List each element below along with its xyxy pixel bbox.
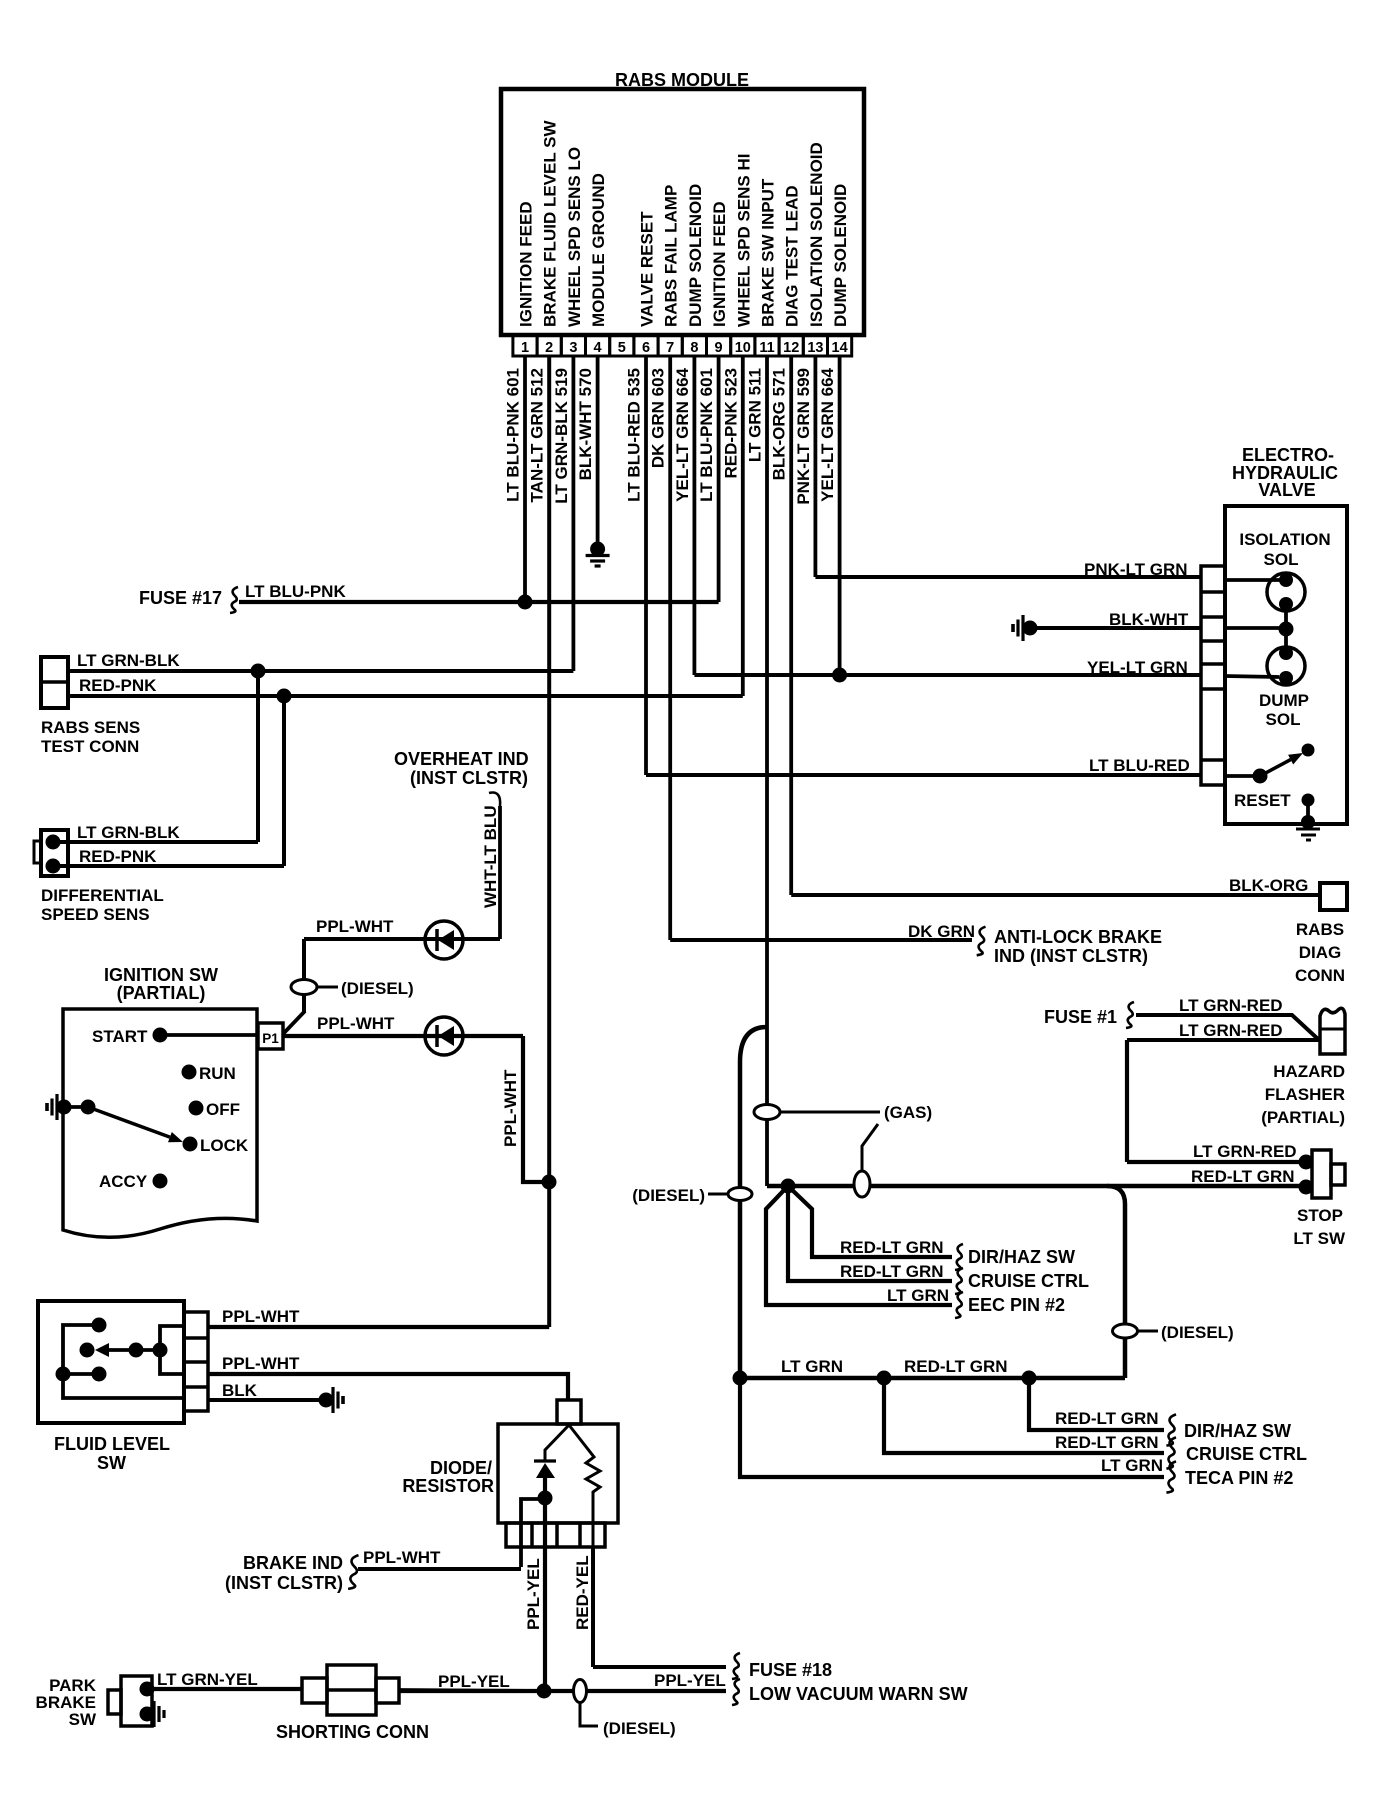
svg-text:CRUISE CTRL: CRUISE CTRL — [968, 1271, 1089, 1291]
svg-text:RED-LT GRN: RED-LT GRN — [840, 1262, 944, 1281]
svg-text:PPL-WHT: PPL-WHT — [222, 1354, 300, 1373]
svg-text:P1: P1 — [262, 1031, 279, 1046]
svg-text:WHEEL SPD SENS HI: WHEEL SPD SENS HI — [734, 154, 753, 328]
svg-text:LT BLU-RED: LT BLU-RED — [1089, 756, 1190, 775]
svg-text:CRUISE CTRL: CRUISE CTRL — [1186, 1444, 1307, 1464]
svg-text:PPL-YEL: PPL-YEL — [438, 1672, 510, 1691]
svg-text:LT GRN-BLK: LT GRN-BLK — [77, 651, 180, 670]
svg-text:PPL-YEL: PPL-YEL — [654, 1671, 726, 1690]
svg-text:RED-PNK 523: RED-PNK 523 — [721, 368, 740, 479]
svg-text:BLK-WHT 570: BLK-WHT 570 — [576, 368, 595, 480]
svg-text:10: 10 — [735, 340, 751, 356]
svg-text:FLUID LEVEL: FLUID LEVEL — [54, 1434, 170, 1454]
svg-text:FLASHER: FLASHER — [1265, 1085, 1345, 1104]
svg-text:STOP: STOP — [1297, 1206, 1343, 1225]
svg-text:LT GRN-RED: LT GRN-RED — [1193, 1142, 1297, 1161]
svg-text:YEL-LT GRN 664: YEL-LT GRN 664 — [673, 367, 692, 501]
svg-text:RED-LT GRN: RED-LT GRN — [1055, 1409, 1159, 1428]
svg-text:6: 6 — [642, 340, 650, 356]
svg-text:(INST CLSTR): (INST CLSTR) — [410, 768, 528, 788]
svg-text:3: 3 — [569, 340, 577, 356]
svg-text:DIAG: DIAG — [1299, 943, 1342, 962]
svg-text:BRAKE SW INPUT: BRAKE SW INPUT — [759, 178, 778, 327]
svg-text:LOCK: LOCK — [200, 1136, 249, 1155]
svg-text:DIODE/: DIODE/ — [430, 1458, 492, 1478]
svg-text:8: 8 — [690, 340, 698, 356]
svg-text:FUSE #1: FUSE #1 — [1044, 1007, 1117, 1027]
svg-text:OFF: OFF — [206, 1100, 240, 1119]
svg-text:RED-LT GRN: RED-LT GRN — [904, 1357, 1008, 1376]
svg-text:ANTI-LOCK BRAKE: ANTI-LOCK BRAKE — [994, 927, 1162, 947]
svg-text:LT GRN 511: LT GRN 511 — [746, 368, 765, 462]
svg-text:ELECTRO-: ELECTRO- — [1242, 445, 1334, 465]
svg-text:BLK: BLK — [222, 1381, 258, 1400]
svg-text:(DIESEL): (DIESEL) — [632, 1186, 705, 1205]
svg-text:13: 13 — [807, 340, 823, 356]
svg-text:HAZARD: HAZARD — [1273, 1062, 1345, 1081]
svg-text:RUN: RUN — [199, 1064, 236, 1083]
svg-text:WHT-LT BLU: WHT-LT BLU — [481, 805, 500, 908]
svg-text:BRAKE FLUID LEVEL SW: BRAKE FLUID LEVEL SW — [541, 120, 560, 327]
svg-text:CONN: CONN — [1295, 966, 1345, 985]
svg-text:(DIESEL): (DIESEL) — [341, 979, 414, 998]
svg-text:(GAS): (GAS) — [884, 1103, 932, 1122]
svg-text:FUSE #17: FUSE #17 — [139, 588, 222, 608]
svg-text:BLK-ORG: BLK-ORG — [1229, 876, 1308, 895]
svg-text:RABS: RABS — [1296, 920, 1344, 939]
svg-text:START: START — [92, 1027, 148, 1046]
svg-text:12: 12 — [783, 340, 799, 356]
svg-text:LT GRN: LT GRN — [887, 1286, 949, 1305]
svg-text:PNK-LT GRN 599: PNK-LT GRN 599 — [794, 368, 813, 505]
svg-text:DIFFERENTIAL: DIFFERENTIAL — [41, 886, 164, 905]
svg-text:DK GRN 603: DK GRN 603 — [649, 368, 668, 468]
svg-text:TEST CONN: TEST CONN — [41, 737, 139, 756]
svg-text:RABS SENS: RABS SENS — [41, 718, 140, 737]
svg-text:SOL: SOL — [1266, 710, 1301, 729]
svg-text:EEC PIN #2: EEC PIN #2 — [968, 1295, 1065, 1315]
svg-text:TAN-LT GRN 512: TAN-LT GRN 512 — [528, 368, 547, 502]
svg-text:LT BLU-PNK: LT BLU-PNK — [245, 582, 346, 601]
svg-text:SW: SW — [69, 1710, 97, 1729]
svg-text:IGNITION FEED: IGNITION FEED — [710, 201, 729, 327]
svg-text:11: 11 — [759, 340, 774, 356]
svg-text:RED-YEL: RED-YEL — [573, 1555, 592, 1630]
svg-text:LT BLU-PNK 601: LT BLU-PNK 601 — [697, 368, 716, 502]
svg-text:VALVE: VALVE — [1258, 480, 1315, 500]
svg-text:14: 14 — [832, 340, 848, 356]
svg-text:LT BLU-PNK 601: LT BLU-PNK 601 — [504, 368, 523, 502]
svg-text:2: 2 — [545, 340, 553, 356]
svg-text:BLK-ORG 571: BLK-ORG 571 — [770, 368, 789, 480]
svg-text:LT SW: LT SW — [1293, 1229, 1346, 1248]
svg-text:PPL-WHT: PPL-WHT — [501, 1069, 520, 1147]
svg-text:DUMP SOLENOID: DUMP SOLENOID — [686, 184, 705, 327]
svg-text:TECA PIN #2: TECA PIN #2 — [1185, 1468, 1293, 1488]
svg-text:(PARTIAL): (PARTIAL) — [117, 983, 206, 1003]
svg-text:LT GRN-YEL: LT GRN-YEL — [157, 1670, 258, 1689]
svg-text:RESET: RESET — [1234, 791, 1291, 810]
svg-text:RABS MODULE: RABS MODULE — [615, 70, 749, 90]
svg-text:DIR/HAZ SW: DIR/HAZ SW — [1184, 1421, 1291, 1441]
svg-text:PPL-YEL: PPL-YEL — [524, 1558, 543, 1630]
svg-text:ISOLATION SOLENOID: ISOLATION SOLENOID — [807, 142, 826, 327]
svg-text:FUSE #18: FUSE #18 — [749, 1660, 832, 1680]
svg-text:SOL: SOL — [1264, 550, 1299, 569]
svg-text:OVERHEAT IND: OVERHEAT IND — [394, 749, 529, 769]
svg-text:YEL-LT GRN 664: YEL-LT GRN 664 — [818, 367, 837, 501]
svg-text:LT GRN-BLK 519: LT GRN-BLK 519 — [552, 368, 571, 504]
svg-text:9: 9 — [715, 340, 723, 356]
svg-text:LT GRN: LT GRN — [1101, 1456, 1163, 1475]
svg-text:MODULE GROUND: MODULE GROUND — [589, 173, 608, 327]
svg-text:WHEEL SPD SENS LO: WHEEL SPD SENS LO — [565, 147, 584, 327]
svg-text:SW: SW — [97, 1453, 126, 1473]
svg-text:VALVE RESET: VALVE RESET — [638, 211, 657, 327]
svg-text:DIR/HAZ SW: DIR/HAZ SW — [968, 1247, 1075, 1267]
svg-text:RED-LT GRN: RED-LT GRN — [1191, 1167, 1295, 1186]
svg-text:ACCY: ACCY — [99, 1172, 148, 1191]
svg-text:4: 4 — [594, 340, 602, 356]
svg-text:PPL-WHT: PPL-WHT — [222, 1307, 300, 1326]
svg-text:ISOLATION: ISOLATION — [1239, 530, 1330, 549]
svg-text:RED-PNK: RED-PNK — [79, 847, 157, 866]
svg-text:DIAG TEST LEAD: DIAG TEST LEAD — [783, 185, 802, 327]
svg-text:LT GRN-BLK: LT GRN-BLK — [77, 823, 180, 842]
svg-text:7: 7 — [666, 340, 674, 356]
svg-text:(DIESEL): (DIESEL) — [603, 1719, 676, 1738]
svg-text:IND (INST CLSTR): IND (INST CLSTR) — [994, 946, 1148, 966]
svg-text:LT GRN-RED: LT GRN-RED — [1179, 996, 1283, 1015]
svg-text:LOW VACUUM WARN SW: LOW VACUUM WARN SW — [749, 1684, 968, 1704]
svg-text:LT GRN: LT GRN — [781, 1357, 843, 1376]
svg-text:PPL-WHT: PPL-WHT — [316, 917, 394, 936]
svg-text:RED-PNK: RED-PNK — [79, 676, 157, 695]
svg-text:(INST CLSTR): (INST CLSTR) — [225, 1573, 343, 1593]
svg-text:RABS FAIL LAMP: RABS FAIL LAMP — [662, 185, 681, 327]
svg-text:RED-LT GRN: RED-LT GRN — [840, 1238, 944, 1257]
svg-text:IGNITION FEED: IGNITION FEED — [517, 201, 536, 327]
svg-text:1: 1 — [521, 340, 529, 356]
svg-text:IGNITION SW: IGNITION SW — [104, 965, 218, 985]
svg-text:(PARTIAL): (PARTIAL) — [1261, 1108, 1345, 1127]
svg-text:PPL-WHT: PPL-WHT — [317, 1014, 395, 1033]
svg-text:LT BLU-RED 535: LT BLU-RED 535 — [625, 368, 644, 502]
svg-text:(DIESEL): (DIESEL) — [1161, 1323, 1234, 1342]
svg-text:RED-LT GRN: RED-LT GRN — [1055, 1433, 1159, 1452]
svg-text:5: 5 — [618, 340, 626, 356]
svg-text:SPEED SENS: SPEED SENS — [41, 905, 150, 924]
svg-text:BRAKE IND: BRAKE IND — [243, 1553, 343, 1573]
svg-text:DUMP SOLENOID: DUMP SOLENOID — [831, 184, 850, 327]
svg-text:SHORTING CONN: SHORTING CONN — [276, 1722, 429, 1742]
svg-text:PPL-WHT: PPL-WHT — [363, 1548, 441, 1567]
svg-text:DUMP: DUMP — [1259, 691, 1309, 710]
svg-text:LT GRN-RED: LT GRN-RED — [1179, 1021, 1283, 1040]
svg-text:RESISTOR: RESISTOR — [402, 1476, 494, 1496]
